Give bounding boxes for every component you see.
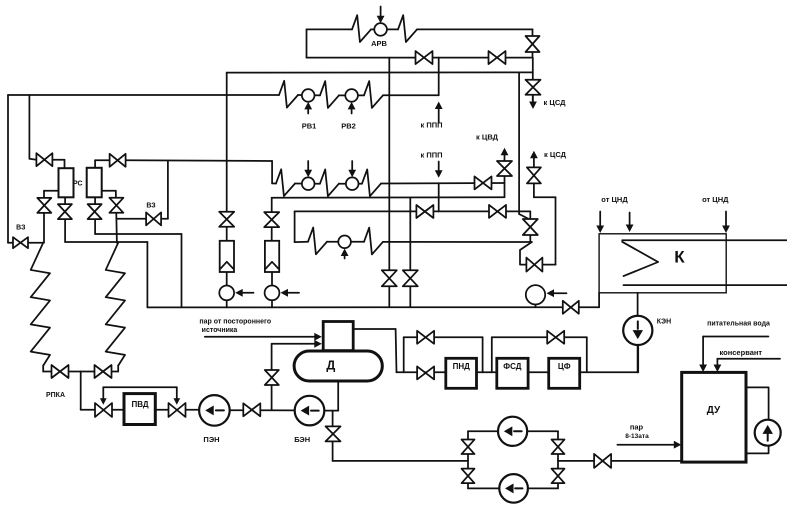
svg-text:ФСД: ФСД — [503, 362, 522, 371]
svg-text:пар: пар — [630, 423, 644, 432]
svg-text:пар от постороннего: пар от постороннего — [199, 318, 271, 325]
svg-text:ПЭН: ПЭН — [203, 435, 219, 444]
svg-text:консервант: консервант — [720, 348, 763, 357]
svg-text:ДУ: ДУ — [707, 405, 721, 416]
svg-text:к ППП: к ППП — [420, 151, 442, 160]
svg-text:РС: РС — [73, 181, 83, 188]
svg-text:ПНД: ПНД — [453, 362, 471, 371]
svg-text:питательная вода: питательная вода — [707, 321, 770, 328]
svg-text:ПВД: ПВД — [131, 400, 148, 409]
svg-text:к ЦВД: к ЦВД — [476, 133, 499, 142]
svg-text:8-13ата: 8-13ата — [625, 433, 649, 440]
svg-text:К: К — [674, 248, 685, 267]
svg-text:к ЦСД: к ЦСД — [544, 150, 567, 159]
svg-text:от ЦНД: от ЦНД — [702, 195, 729, 204]
svg-text:ВЗ: ВЗ — [16, 225, 26, 232]
svg-text:КЭН: КЭН — [657, 319, 671, 326]
svg-text:ВЗ: ВЗ — [146, 203, 156, 210]
svg-text:РВ1: РВ1 — [302, 122, 317, 131]
svg-text:Д: Д — [326, 359, 335, 373]
svg-text:АРВ: АРВ — [371, 39, 387, 48]
svg-text:к ЦСД: к ЦСД — [544, 98, 567, 107]
svg-text:БЭН: БЭН — [294, 435, 310, 444]
svg-text:ЦФ: ЦФ — [558, 362, 571, 371]
svg-text:к ППП: к ППП — [420, 121, 442, 130]
svg-text:источника: источника — [202, 327, 238, 334]
svg-text:РВ2: РВ2 — [341, 122, 356, 131]
svg-text:РПКА: РПКА — [46, 392, 65, 399]
svg-text:от ЦНД: от ЦНД — [601, 195, 628, 204]
